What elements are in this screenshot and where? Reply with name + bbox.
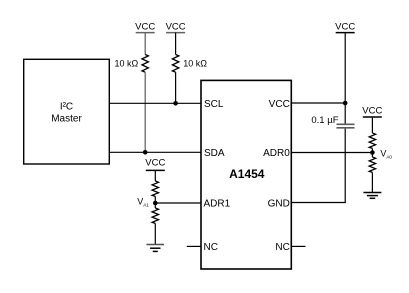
svg-text:Master: Master <box>51 114 82 125</box>
junction node VA1 <box>153 201 158 206</box>
svg-text:SCL: SCL <box>204 99 224 110</box>
resistor R5 (ADR0 divider upper) <box>369 133 375 148</box>
wire ADR0 (A1454 to divider node) <box>291 152 372 154</box>
svg-text:ADR0: ADR0 <box>263 148 290 159</box>
wire R6 to ground <box>371 172 373 192</box>
resistor R2 10 kOhm (SCL pull-up) <box>172 55 178 73</box>
wire R1 to SDA (crosses SCL, no junction) <box>144 72 146 152</box>
wire R4 to ground <box>154 223 156 244</box>
wire VCC bar to R1 <box>144 33 146 55</box>
wire VCC pin to bypass rail <box>291 102 345 104</box>
power symbol VCC (top right, bypass) <box>335 21 355 32</box>
I2C Master block U2 <box>24 59 110 164</box>
A1454 IC U1 <box>201 80 291 269</box>
svg-text:0.1 µF: 0.1 µF <box>311 115 338 126</box>
wire VCC bar to divider R3 <box>154 170 156 181</box>
wire SDA (master to A1454) <box>109 151 201 153</box>
junction node VA0 <box>370 150 375 155</box>
svg-text:VCC: VCC <box>135 21 155 32</box>
wire NC stub (left) <box>187 245 201 247</box>
wire R3 to node VA1 <box>154 196 156 208</box>
wire GND pin row <box>291 202 346 204</box>
wire R5 to node VA0 <box>371 148 373 157</box>
resistor R4 (ADR1 divider lower) <box>152 208 158 223</box>
svg-text:NC: NC <box>275 242 289 253</box>
resistor R1 10 kOhm (SDA pull-up) <box>142 55 148 73</box>
wire SCL (master to A1454) <box>109 102 201 104</box>
resistor R6 (ADR0 divider lower) <box>369 157 375 172</box>
svg-text:10 kΩ: 10 kΩ <box>183 59 207 69</box>
svg-text:ADR1: ADR1 <box>204 199 231 210</box>
junction VCC rail <box>343 101 348 106</box>
junction R2/SCL <box>173 101 178 106</box>
svg-text:GND: GND <box>268 199 290 210</box>
svg-text:I²C: I²C <box>60 101 73 112</box>
power symbol VCC (above ADR1 divider) <box>145 158 165 171</box>
wire VCC bar to R2 <box>175 33 177 55</box>
power symbol VCC (above ADR0 divider) <box>362 106 382 118</box>
wire VCC bar to divider R5 <box>371 117 373 133</box>
svg-text:VCC: VCC <box>145 158 165 169</box>
wire VCC rail (bar down to capacitor) <box>344 33 346 124</box>
svg-text:SDA: SDA <box>204 148 225 159</box>
power symbol VCC (above R2) <box>166 21 186 32</box>
wire ADR1 (node to A1454) <box>155 202 201 204</box>
wire NC stub (right) <box>291 245 305 247</box>
svg-text:VCC: VCC <box>269 99 290 110</box>
wire capacitor to GND pin (vertical) <box>344 129 346 203</box>
svg-text:A1454: A1454 <box>229 167 265 181</box>
ground (ADR0 divider) <box>363 193 381 199</box>
capacitor C1 0.1 uF <box>337 124 355 128</box>
resistor R3 (ADR1 divider upper) <box>152 181 158 196</box>
svg-text:VCC: VCC <box>362 106 382 117</box>
svg-text:VCC: VCC <box>166 21 186 32</box>
wire R2 to SCL <box>175 72 177 103</box>
power symbol VCC (above R1) <box>135 21 155 32</box>
junction R1/SDA <box>143 150 148 155</box>
ground (ADR1 divider) <box>147 245 165 252</box>
svg-text:NC: NC <box>204 242 218 253</box>
svg-text:VCC: VCC <box>335 21 355 32</box>
svg-text:10 kΩ: 10 kΩ <box>115 59 139 69</box>
